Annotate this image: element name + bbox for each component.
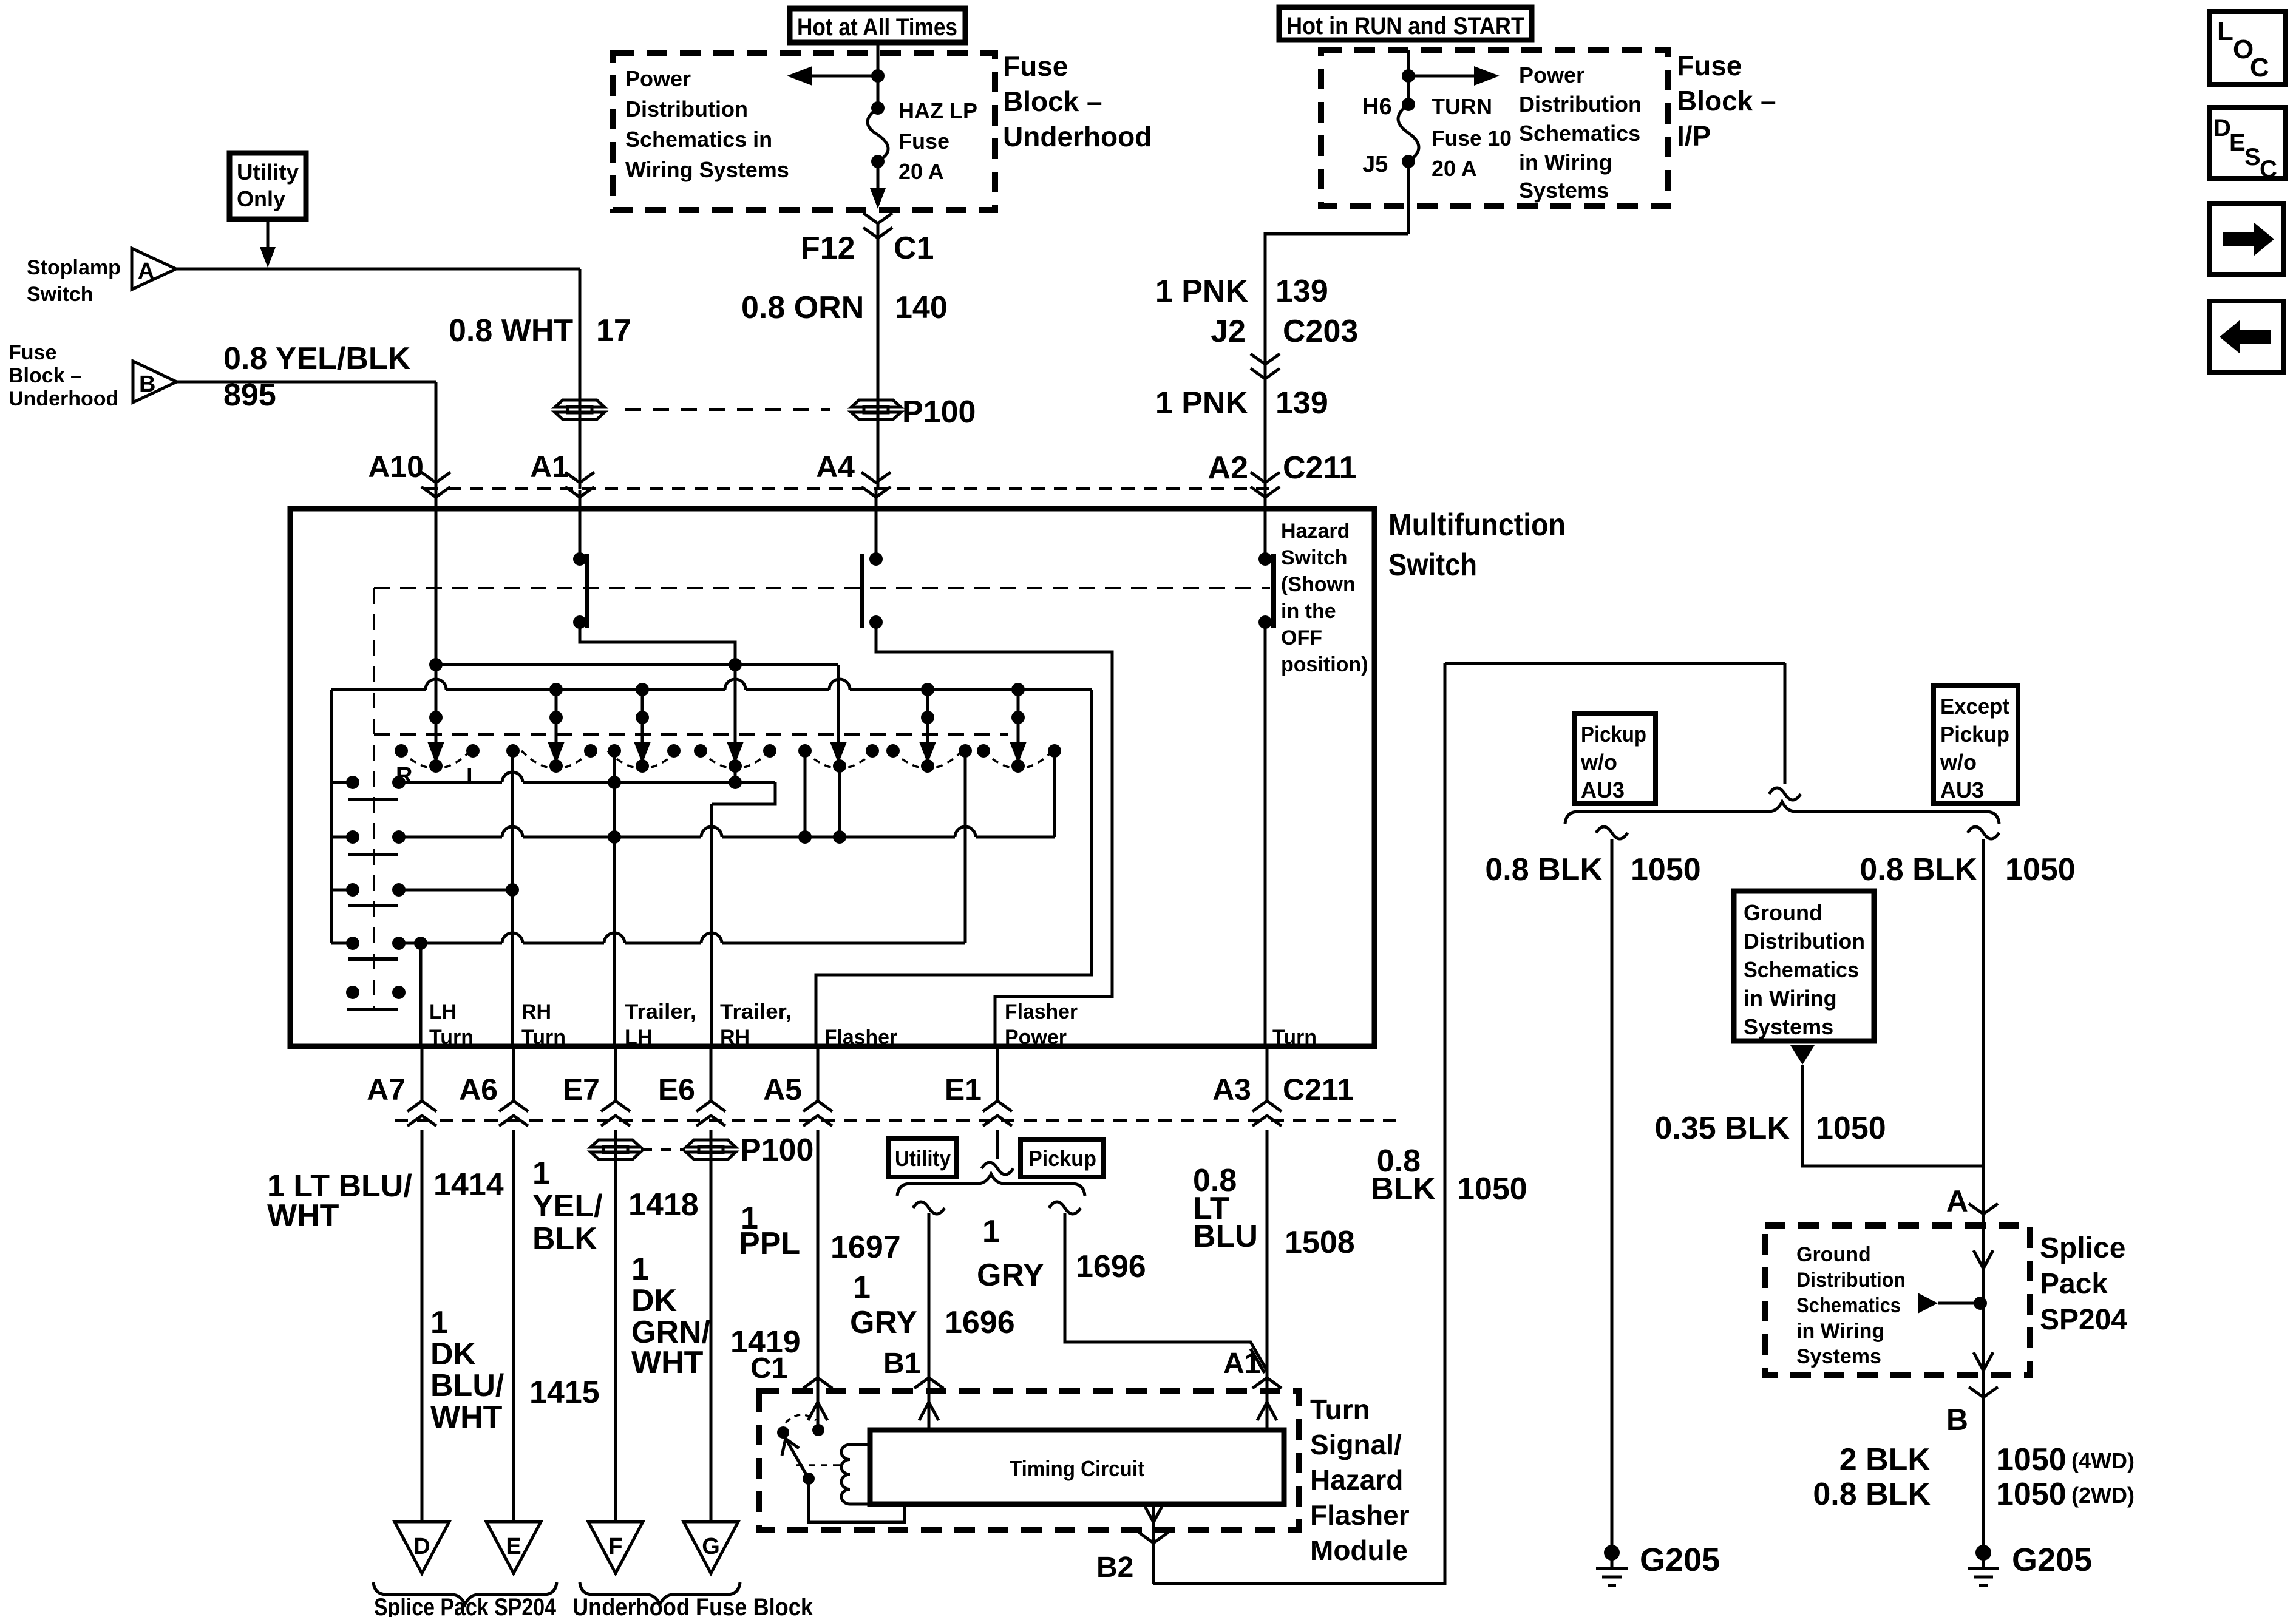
brace - underhood fuse block	[580, 1582, 740, 1604]
wire - A1 drop 0.8 WHT	[579, 269, 582, 489]
svg-text:0.8 YEL/BLK: 0.8 YEL/BLK	[223, 341, 411, 376]
svg-text:L: L	[2217, 16, 2233, 46]
svg-text:D: D	[2213, 115, 2231, 141]
connector chevron A3	[1252, 1116, 1282, 1126]
wire - A6 drop 1 DK BLU/WHT	[512, 1130, 515, 1522]
svg-text:Underhood Fuse Block: Underhood Fuse Block	[572, 1594, 813, 1617]
connector P100 on E7 wire	[591, 1140, 640, 1147]
wire - TURN fuse to C203/C211 (1 PNK 139)	[1407, 161, 1410, 234]
svg-text:LH: LH	[429, 1000, 457, 1023]
wire - row1 bus (R/L)	[399, 781, 775, 784]
svg-text:1050: 1050	[1996, 1442, 2067, 1477]
brace - utility/pickup split	[897, 1174, 1085, 1196]
svg-text:C1: C1	[750, 1352, 787, 1385]
svg-text:A4: A4	[816, 450, 855, 484]
label box Pickup w/o AU3	[1574, 713, 1656, 804]
wire - Utility Only arrow to stoplamp line	[267, 219, 270, 250]
svg-text:0.8 BLK: 0.8 BLK	[1485, 852, 1603, 887]
svg-text:B: B	[1946, 1403, 1968, 1437]
connector chevron A10	[421, 472, 450, 483]
svg-text:A7: A7	[367, 1073, 406, 1107]
svg-text:Switch: Switch	[1388, 547, 1477, 583]
wire - 0.8 BLK 1050 to brace (top right)	[1445, 662, 1785, 665]
multifunction switch box	[290, 509, 1374, 1046]
svg-text:A3: A3	[1212, 1073, 1251, 1107]
svg-text:WHT: WHT	[631, 1345, 704, 1380]
connector G	[684, 1522, 738, 1573]
svg-text:Pickup: Pickup	[1028, 1146, 1096, 1171]
svg-text:Turn: Turn	[1310, 1394, 1370, 1425]
relay coil	[850, 1443, 870, 1446]
svg-text:1414: 1414	[433, 1167, 504, 1202]
svg-text:Except: Except	[1940, 694, 2009, 719]
svg-text:Block –: Block –	[1003, 86, 1102, 117]
svg-text:Switch: Switch	[27, 283, 93, 306]
splice pack SP204 dashed box	[1765, 1225, 2030, 1375]
svg-text:I/P: I/P	[1677, 120, 1711, 152]
svg-text:C: C	[2250, 53, 2269, 83]
svg-text:A5: A5	[763, 1073, 802, 1107]
wire - wiper stub P5 to row2	[838, 766, 841, 837]
svg-text:895: 895	[223, 378, 276, 413]
svg-text:Distribution: Distribution	[625, 97, 748, 121]
svg-text:G: G	[702, 1534, 720, 1559]
svg-text:Fuse: Fuse	[1003, 50, 1068, 82]
svg-text:1 PNK: 1 PNK	[1155, 385, 1249, 421]
ground G205 (left)	[1604, 1545, 1620, 1561]
svg-text:Flasher: Flasher	[1310, 1499, 1410, 1531]
svg-text:0.8 BLK: 0.8 BLK	[1813, 1477, 1931, 1512]
wire - utility branch 1 GRY 1696	[913, 1202, 945, 1214]
svg-text:Utility: Utility	[237, 160, 299, 185]
label box Pickup	[1021, 1140, 1104, 1177]
wire - 0.35 BLK 1050	[1790, 1045, 1815, 1065]
svg-text:BLU: BLU	[1193, 1219, 1258, 1254]
wire - row4 bus	[399, 942, 965, 945]
svg-text:1: 1	[430, 1305, 448, 1340]
svg-text:Power: Power	[625, 66, 691, 91]
dashed actuator link - turn row	[374, 733, 1008, 736]
svg-text:WHT: WHT	[267, 1198, 339, 1233]
svg-text:Systems: Systems	[1519, 178, 1609, 203]
svg-text:1415: 1415	[529, 1375, 600, 1410]
svg-text:in Wiring: in Wiring	[1744, 986, 1837, 1011]
svg-text:Flasher: Flasher	[824, 1026, 897, 1049]
svg-text:140: 140	[895, 290, 948, 325]
svg-text:Turn: Turn	[429, 1026, 474, 1049]
svg-text:(2WD): (2WD)	[2071, 1483, 2135, 1508]
switch contact - A1 pole	[579, 509, 582, 559]
svg-text:1: 1	[982, 1214, 1000, 1249]
svg-text:Ground: Ground	[1796, 1243, 1871, 1266]
svg-text:Schematics: Schematics	[1744, 957, 1859, 982]
svg-text:Distribution: Distribution	[1796, 1269, 1906, 1292]
svg-text:in Wiring: in Wiring	[1796, 1320, 1884, 1343]
svg-text:1050: 1050	[1816, 1111, 1886, 1146]
svg-text:RH: RH	[720, 1026, 750, 1049]
svg-text:AU3: AU3	[1940, 778, 1984, 802]
svg-text:A6: A6	[459, 1073, 498, 1107]
svg-text:RH: RH	[521, 1000, 551, 1023]
module pin B1 entry	[928, 1369, 931, 1430]
svg-text:P100: P100	[902, 395, 976, 430]
wire - E6 drop 1 DK GRN/WHT	[710, 1130, 713, 1522]
Utility Only box	[229, 153, 306, 219]
wire - flank stub 1737 to row2	[1053, 751, 1056, 837]
wire - wiper stub P4 to row1	[734, 766, 737, 782]
svg-text:Hot at All Times: Hot at All Times	[797, 14, 957, 41]
svg-text:A: A	[1946, 1184, 1968, 1218]
svg-text:Turn: Turn	[521, 1026, 566, 1049]
wire - RH Turn drop	[511, 751, 514, 1046]
wire - LH Turn drop	[419, 943, 423, 1046]
wire - ladder spine	[330, 690, 333, 943]
svg-text:w/o: w/o	[1580, 750, 1617, 775]
svg-text:Distribution: Distribution	[1519, 92, 1642, 117]
connector E	[486, 1522, 541, 1573]
svg-text:C211: C211	[1283, 1073, 1354, 1107]
svg-text:Fuse: Fuse	[8, 341, 56, 364]
wire - 0.8 LT BLU 1508 (A3 to A1)	[1266, 1130, 1269, 1385]
module pin A1 entry	[1266, 1369, 1269, 1430]
connector chevron A1	[565, 472, 594, 483]
svg-text:G205: G205	[1640, 1542, 1720, 1578]
arrow - power distribution right	[1408, 75, 1487, 78]
connector chevron A7	[407, 1116, 436, 1126]
svg-text:HAZ LP: HAZ LP	[898, 98, 977, 123]
svg-text:in the: in the	[1281, 600, 1336, 623]
svg-text:B1: B1	[883, 1347, 920, 1380]
svg-text:A2: A2	[1208, 450, 1248, 486]
svg-text:Timing Circuit: Timing Circuit	[1010, 1456, 1144, 1481]
svg-text:TURN: TURN	[1432, 94, 1492, 119]
svg-text:L: L	[466, 764, 480, 790]
svg-text:YEL/: YEL/	[532, 1188, 603, 1224]
svg-text:Turn: Turn	[1272, 1026, 1317, 1049]
connector chevron E1	[983, 1116, 1012, 1126]
switch contact - hazard switch Turn pole	[1264, 509, 1267, 559]
svg-text:20 A: 20 A	[898, 159, 944, 184]
fuse HAZ LP 20A	[871, 101, 885, 115]
svg-text:Trailer,: Trailer,	[720, 1000, 792, 1023]
wire - stubs into switch box	[435, 490, 438, 509]
svg-text:Splice: Splice	[2040, 1232, 2125, 1264]
svg-text:C: C	[2260, 156, 2277, 183]
connector A (Stoplamp Switch)	[132, 248, 176, 290]
brace - pickup split (right)	[1565, 802, 1999, 824]
svg-text:139: 139	[1275, 385, 1328, 421]
svg-text:S: S	[2244, 144, 2261, 171]
svg-text:E: E	[2229, 129, 2246, 156]
wire - row2 bus	[399, 836, 1055, 839]
svg-text:Hot in RUN and START: Hot in RUN and START	[1286, 13, 1524, 39]
svg-text:Switch: Switch	[1281, 546, 1348, 569]
wire - pickup branch 1 GRY 1696	[1049, 1202, 1081, 1214]
connector D	[395, 1522, 449, 1573]
connector chevron A4	[861, 472, 891, 483]
svg-text:1 PNK: 1 PNK	[1155, 274, 1249, 309]
svg-text:1: 1	[631, 1252, 649, 1287]
fuse block underhood dashed box	[613, 53, 995, 210]
svg-text:20 A: 20 A	[1432, 156, 1477, 181]
wire - bus from A10 (lineA)	[435, 509, 438, 756]
svg-text:Schematics: Schematics	[1519, 121, 1640, 146]
connector chevron A6	[499, 1116, 528, 1126]
svg-text:1050: 1050	[1457, 1171, 1527, 1207]
svg-text:J2: J2	[1211, 314, 1246, 349]
svg-text:Only: Only	[237, 186, 285, 211]
svg-text:A10: A10	[368, 450, 424, 484]
svg-text:Trailer,: Trailer,	[625, 1000, 696, 1023]
wire - dashed connector link P100	[625, 408, 830, 411]
svg-text:Systems: Systems	[1796, 1345, 1881, 1368]
connector chevron A5	[803, 1116, 832, 1126]
svg-text:0.8 WHT: 0.8 WHT	[449, 313, 573, 348]
svg-text:P100: P100	[740, 1133, 813, 1168]
wire - stoplamp feed 0.8 WHT	[176, 268, 580, 271]
switch ladder contacts	[346, 776, 359, 789]
svg-text:GRY: GRY	[977, 1258, 1044, 1293]
label box Hot at All Times	[790, 8, 965, 42]
svg-text:1696: 1696	[1076, 1249, 1146, 1284]
fuse TURN 10 20A	[1402, 98, 1415, 111]
svg-text:0.8 ORN: 0.8 ORN	[741, 290, 864, 325]
dashed actuator link - hazard	[374, 587, 1270, 589]
svg-text:DK: DK	[631, 1283, 678, 1318]
svg-text:BLK: BLK	[532, 1221, 597, 1256]
svg-text:139: 139	[1275, 274, 1328, 309]
svg-text:A: A	[138, 259, 154, 284]
svg-text:Splice Pack SP204: Splice Pack SP204	[374, 1594, 557, 1617]
label box Utility	[888, 1139, 957, 1177]
svg-text:PPL: PPL	[739, 1226, 800, 1261]
svg-text:G205: G205	[2012, 1542, 2092, 1578]
ground distribution box (solid)	[1734, 891, 1874, 1041]
svg-text:Pack: Pack	[2040, 1268, 2108, 1300]
icon box arrow left	[2209, 301, 2284, 372]
svg-text:Distribution: Distribution	[1744, 929, 1865, 954]
wire - feed into HAZ LP fuse	[877, 42, 880, 108]
switch wiper contact row	[401, 751, 470, 768]
svg-text:Underhood: Underhood	[8, 387, 118, 410]
timing circuit box	[870, 1430, 1284, 1504]
wire - E1 to brace	[996, 1130, 999, 1159]
svg-text:E7: E7	[563, 1073, 600, 1107]
svg-text:WHT: WHT	[430, 1400, 503, 1435]
svg-text:Ground: Ground	[1744, 900, 1822, 925]
wire - A7 drop 1 LT BLU/WHT	[421, 1130, 424, 1522]
wire - flank stub 1326 to row2	[804, 751, 807, 837]
wire - dashed link P100 bottom	[641, 1148, 685, 1151]
svg-text:LH: LH	[625, 1026, 652, 1049]
svg-text:position): position)	[1281, 653, 1368, 676]
svg-text:SP204: SP204	[2040, 1304, 2127, 1336]
wire - row3 bus	[399, 889, 512, 892]
label box Except Pickup w/o AU3	[1934, 685, 2018, 804]
wire - fuse output to C1	[877, 161, 880, 192]
svg-text:Systems: Systems	[1744, 1014, 1833, 1039]
svg-text:F: F	[608, 1534, 622, 1559]
connector P100 on ORN wire	[851, 400, 901, 407]
svg-text:Fuse: Fuse	[1677, 50, 1742, 81]
wire - right ground drop 0.8 BLK 1050	[1968, 827, 1999, 839]
svg-text:E1: E1	[945, 1073, 982, 1107]
connector F	[588, 1522, 643, 1573]
svg-text:Hazard: Hazard	[1281, 520, 1350, 543]
svg-text:Fuse 10: Fuse 10	[1432, 126, 1512, 151]
svg-text:Module: Module	[1310, 1534, 1408, 1566]
svg-text:Hazard: Hazard	[1310, 1464, 1403, 1496]
wire - E7 drop 1 YEL/BLK	[614, 1130, 617, 1522]
connector P100 on E6 wire	[686, 1140, 736, 1147]
svg-text:OFF: OFF	[1281, 626, 1322, 649]
svg-text:E: E	[506, 1534, 521, 1559]
wire - Trailer RH drop	[710, 804, 713, 1046]
connector row dashed line (bottom C211)	[395, 1119, 1402, 1122]
svg-text:E6: E6	[658, 1073, 695, 1107]
svg-text:C203: C203	[1283, 314, 1358, 349]
switch contact - A4 pole	[875, 509, 878, 559]
svg-text:Pickup: Pickup	[1581, 722, 1646, 747]
svg-text:Utility: Utility	[895, 1146, 951, 1171]
svg-text:BLK: BLK	[1371, 1171, 1436, 1207]
flasher module dashed box	[759, 1391, 1299, 1530]
svg-text:DK: DK	[430, 1337, 477, 1372]
wire - fuse block feed 0.8 YEL/BLK	[177, 381, 436, 384]
module pin C1 entry	[817, 1130, 820, 1430]
svg-text:J5: J5	[1362, 152, 1388, 177]
svg-text:(4WD): (4WD)	[2071, 1448, 2135, 1473]
svg-text:in Wiring: in Wiring	[1519, 150, 1612, 175]
svg-text:Schematics in: Schematics in	[625, 127, 772, 152]
svg-text:A1: A1	[530, 450, 569, 484]
svg-text:B2: B2	[1096, 1551, 1133, 1584]
svg-text:0.8 BLK: 0.8 BLK	[1860, 852, 1977, 887]
svg-text:17: 17	[596, 313, 631, 348]
wire - feed into TURN fuse	[1407, 50, 1410, 104]
svg-text:Block –: Block –	[1677, 85, 1776, 117]
icon box arrow right	[2209, 203, 2284, 274]
connector chevron A2	[1251, 472, 1280, 483]
svg-text:1050: 1050	[2005, 852, 2076, 887]
svg-text:H6: H6	[1362, 94, 1392, 120]
svg-text:F12: F12	[801, 231, 855, 266]
svg-text:Power: Power	[1005, 1026, 1067, 1049]
svg-text:C211: C211	[1283, 450, 1356, 486]
svg-text:1697: 1697	[830, 1230, 901, 1265]
label box Hot in RUN and START	[1279, 7, 1532, 40]
wire - ladder bus (lineB)	[331, 688, 1092, 691]
connector C203	[1251, 354, 1280, 364]
connector B (Fuse Block - Underhood)	[133, 361, 177, 402]
svg-text:GRY: GRY	[850, 1305, 917, 1340]
svg-text:D: D	[413, 1534, 430, 1559]
svg-text:Schematics: Schematics	[1796, 1294, 1901, 1317]
svg-text:AU3: AU3	[1581, 778, 1625, 802]
wire - flank stub 1590 to row4	[964, 751, 967, 943]
svg-text:1696: 1696	[945, 1305, 1015, 1340]
svg-text:C1: C1	[894, 231, 934, 266]
svg-text:1: 1	[853, 1270, 871, 1305]
svg-text:Multifunction: Multifunction	[1388, 507, 1566, 543]
svg-text:w/o: w/o	[1940, 750, 1977, 775]
svg-text:A1: A1	[1223, 1347, 1260, 1380]
module flasher switch	[777, 1426, 789, 1439]
wire - Trailer LH drop	[613, 751, 616, 1046]
arrow - power distribution left	[799, 75, 878, 78]
svg-text:Pickup: Pickup	[1940, 722, 2009, 747]
svg-text:Signal/: Signal/	[1310, 1429, 1402, 1460]
svg-text:1050: 1050	[1996, 1477, 2067, 1512]
svg-text:Wiring Systems: Wiring Systems	[625, 157, 789, 182]
svg-text:B: B	[139, 371, 155, 397]
svg-text:1: 1	[532, 1156, 550, 1191]
icon box LOC	[2209, 12, 2285, 84]
module pin B2 exit	[1152, 1504, 1155, 1584]
svg-text:Block –: Block –	[8, 364, 82, 387]
connector chevron E6	[696, 1116, 725, 1126]
wire - left ground drop 0.8 BLK 1050	[1596, 827, 1628, 839]
icon box DESC	[2209, 107, 2285, 178]
connector row dashed line (top C211)	[425, 487, 1275, 490]
ground G205 (right)	[1975, 1545, 1991, 1561]
svg-text:1508: 1508	[1285, 1225, 1355, 1260]
svg-text:Stoplamp: Stoplamp	[27, 256, 121, 279]
connector chevron E7	[601, 1116, 630, 1126]
svg-text:Underhood: Underhood	[1003, 121, 1152, 152]
connector on WHT wire	[555, 400, 605, 407]
svg-text:1418: 1418	[628, 1187, 699, 1222]
svg-text:BLU/: BLU/	[430, 1368, 504, 1403]
brace - splice pack SP204	[373, 1582, 557, 1604]
svg-text:(Shown: (Shown	[1281, 573, 1356, 596]
svg-text:0.35 BLK: 0.35 BLK	[1654, 1111, 1790, 1146]
wire - contact stubs from lineB	[555, 690, 558, 756]
svg-text:2 BLK: 2 BLK	[1839, 1442, 1931, 1477]
svg-text:1050: 1050	[1631, 852, 1701, 887]
svg-text:Flasher: Flasher	[1005, 1000, 1078, 1023]
fuse block I/P dashed box	[1321, 50, 1668, 206]
svg-text:Fuse: Fuse	[898, 129, 949, 154]
svg-text:Power: Power	[1519, 63, 1584, 87]
